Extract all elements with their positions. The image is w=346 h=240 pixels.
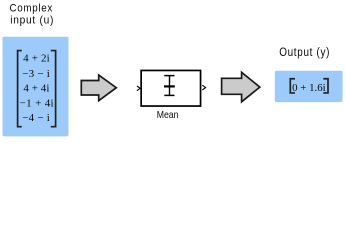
svg-text:Mean: Mean	[157, 109, 179, 121]
svg-text:Output (y): Output (y)	[279, 47, 330, 59]
svg-text:−4 − i: −4 − i	[22, 112, 50, 124]
svg-text:0 + 1.6i: 0 + 1.6i	[292, 82, 326, 94]
svg-text:4 + 4i: 4 + 4i	[23, 83, 49, 95]
svg-text:−3 − i: −3 − i	[22, 68, 50, 80]
svg-text:Complex: Complex	[10, 2, 54, 14]
svg-text:−1 + 4i: −1 + 4i	[20, 97, 54, 109]
svg-text:4 + 2i: 4 + 2i	[23, 53, 50, 65]
svg-text:input (u): input (u)	[10, 15, 54, 27]
